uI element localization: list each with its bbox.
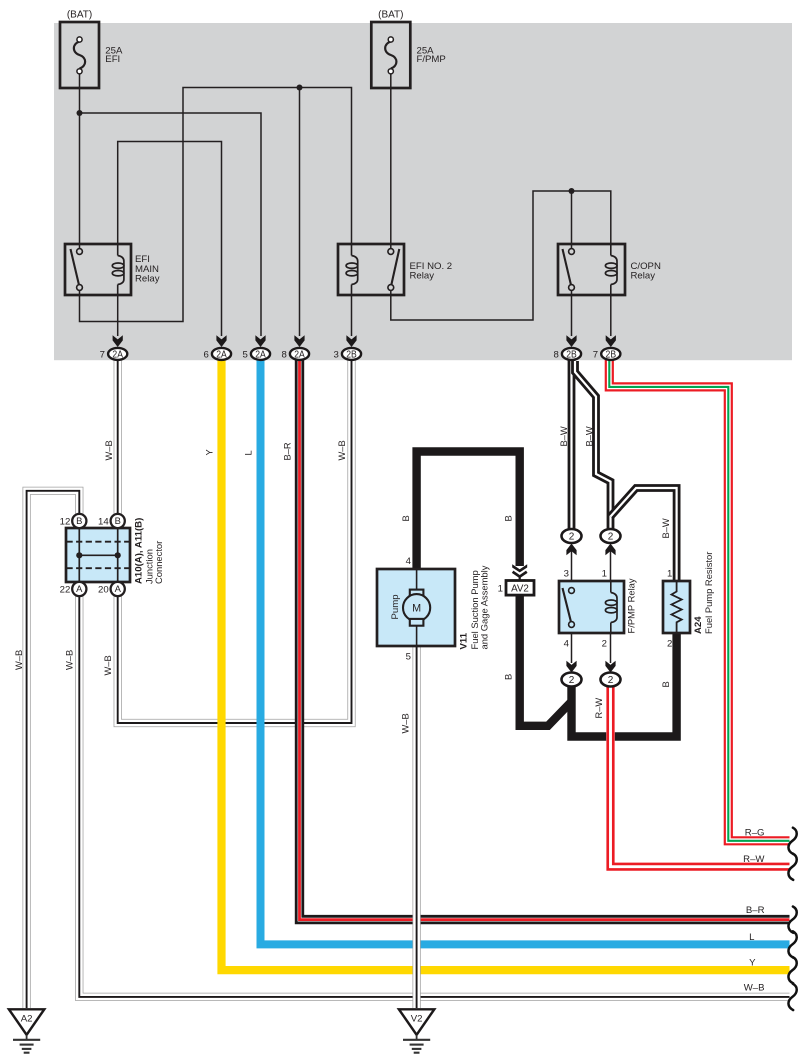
svg-text:5: 5 <box>242 349 247 360</box>
pin 7 2B <box>606 335 616 347</box>
svg-text:W–B: W–B <box>744 983 765 994</box>
wire: EFI MAIN coil to pin 6 2A <box>118 142 222 337</box>
wire: EFI NO.2 coil bottom to pin 3 2B <box>351 295 353 336</box>
svg-text:Connector: Connector <box>153 541 164 584</box>
wire W-B: junction B12 up, left, down to ground A2 <box>27 491 80 1008</box>
svg-text:B–W: B–W <box>559 426 569 446</box>
svg-text:Relay: Relay <box>410 271 435 282</box>
svg-text:2A: 2A <box>294 349 305 360</box>
svg-text:AV2: AV2 <box>511 584 529 595</box>
continuation curl Y <box>788 957 796 983</box>
node dot at C/OPN feed <box>569 188 575 194</box>
continuation curl B-R <box>788 907 796 933</box>
svg-text:B–W: B–W <box>661 518 671 538</box>
wire W-B: pin 7 2A down to junction connector B14 <box>114 359 122 515</box>
svg-text:B–R: B–R <box>746 905 765 916</box>
svg-text:7: 7 <box>593 349 598 360</box>
svg-text:W–B: W–B <box>64 650 74 670</box>
resistor A24 Fuel Pump Resistor <box>663 581 690 633</box>
svg-text:A: A <box>115 583 122 594</box>
svg-text:EFI: EFI <box>105 54 120 65</box>
continuation curl R-W <box>788 854 796 880</box>
connector 2 (to relay pin 1) <box>610 551 612 581</box>
wire: branch down to pin 8 2A <box>299 88 301 337</box>
svg-text:A: A <box>76 583 83 594</box>
svg-text:R–G: R–G <box>745 827 765 838</box>
wire: fuse F/PMP to EFI NO.2 contact <box>390 71 392 249</box>
wire: fuse EFI to EFI MAIN relay contact <box>79 71 81 249</box>
svg-text:2: 2 <box>569 675 575 686</box>
svg-text:F/PMP Relay: F/PMP Relay <box>626 578 637 633</box>
relay EFI MAIN <box>65 244 131 295</box>
svg-text:2: 2 <box>667 639 672 650</box>
wire W-B: fuel pump pin 5 down to ground V2 (drawn over crossings) <box>413 646 421 1008</box>
svg-text:3: 3 <box>333 349 338 360</box>
relay EFI NO. 2 <box>338 244 404 295</box>
svg-text:14: 14 <box>98 517 109 528</box>
node dot on B-R feed <box>297 85 303 91</box>
svg-text:A2: A2 <box>21 1013 33 1024</box>
wire W-B: junction A22 down and right along bottom to edge <box>79 595 789 997</box>
svg-text:2: 2 <box>608 532 614 543</box>
svg-text:2A: 2A <box>216 349 227 360</box>
svg-text:Relay: Relay <box>631 271 656 282</box>
connector AV2 <box>512 564 527 572</box>
continuation curl R-G <box>788 828 796 854</box>
pin 8 2A <box>294 335 304 347</box>
F/PMP relay pin 2 <box>610 633 612 663</box>
connector 2 (relay pin 2 out) <box>605 661 615 673</box>
fuse 25A EFI <box>60 22 99 88</box>
svg-text:5: 5 <box>406 652 411 663</box>
wire: node to pin 5 2A <box>80 113 262 336</box>
svg-text:W–B: W–B <box>104 440 114 460</box>
wire Y: pin 6 2A down and right to edge <box>222 359 790 970</box>
wire: EFI NO.2 contact out to C/OPN relay <box>391 191 611 320</box>
wire B (thick): AV2 down, over to F/PMP relay pin 4 node <box>520 595 572 726</box>
svg-text:B: B <box>504 674 514 680</box>
junction pin B14 <box>111 514 125 528</box>
gray engine-compartment panel <box>54 23 792 360</box>
svg-text:22: 22 <box>60 585 71 596</box>
svg-text:R–W: R–W <box>594 698 604 719</box>
wire B-W: pin 8 2B straight down to connector 2 (F/PMP relay pin 3) <box>568 359 576 529</box>
svg-text:2B: 2B <box>566 349 577 360</box>
svg-text:3: 3 <box>564 569 569 580</box>
wire: C/OPN coil bottom to pin 7 2B <box>610 295 612 336</box>
wire L: pin 5 2A down and right to edge <box>261 359 790 944</box>
pin 5 2A <box>255 335 265 347</box>
svg-text:Y: Y <box>749 957 756 968</box>
pin 7 2A <box>113 335 123 347</box>
junction pin B12 <box>72 514 86 528</box>
svg-text:2: 2 <box>608 675 614 686</box>
relay F/PMP <box>559 581 624 633</box>
svg-text:M: M <box>412 603 421 615</box>
junction connector internal bus <box>79 554 117 556</box>
svg-text:2: 2 <box>602 639 607 650</box>
svg-text:2A: 2A <box>255 349 266 360</box>
svg-text:B: B <box>661 681 671 687</box>
svg-text:6: 6 <box>203 349 208 360</box>
node dot below EFI fuse <box>77 110 83 116</box>
svg-text:1: 1 <box>498 583 503 594</box>
wire B-W: branch to fuel pump resistor pin 1 <box>611 488 677 581</box>
fuse 25A F/PMP <box>371 22 410 88</box>
svg-text:Pump: Pump <box>390 594 401 619</box>
F/PMP relay pin 4 <box>571 633 573 663</box>
continuation curl L <box>788 931 796 957</box>
svg-text:(BAT): (BAT) <box>378 10 403 21</box>
svg-text:1: 1 <box>602 569 607 580</box>
wire B-W: pin 8 2B diagonal branch down to connector 2 (F/PMP relay pin 1) <box>575 361 611 529</box>
svg-text:12: 12 <box>60 517 71 528</box>
svg-text:(BAT): (BAT) <box>67 10 92 21</box>
svg-text:Relay: Relay <box>135 274 160 285</box>
wire: C/OPN contact bottom to pin 8 2B <box>571 290 573 336</box>
junction pin A20 <box>111 582 125 596</box>
svg-text:2A: 2A <box>112 349 123 360</box>
svg-text:1: 1 <box>667 569 672 580</box>
svg-text:F/PMP: F/PMP <box>417 54 446 65</box>
wire R-G: pin 7 2B right and down right side to edge <box>609 360 789 841</box>
svg-text:B–W: B–W <box>585 426 595 446</box>
svg-text:B–R: B–R <box>283 442 293 460</box>
svg-text:B: B <box>76 515 82 526</box>
wire B-R: pin 8 2A down and right to edge <box>300 359 790 920</box>
pin 8 2B <box>566 335 576 347</box>
wire: EFI MAIN coil bottom to pin 7 2A <box>117 295 119 336</box>
svg-text:W–B: W–B <box>401 713 411 733</box>
svg-text:7: 7 <box>100 349 105 360</box>
fuel pump assembly V11 box <box>377 569 455 646</box>
svg-text:W–B: W–B <box>14 650 24 670</box>
wire B (thick): relay pin 4 down, right, up to resistor pin 2 <box>572 633 677 737</box>
continuation curl W-B <box>788 984 796 1010</box>
ground A2 <box>9 1009 44 1035</box>
relay C/OPN <box>558 244 625 295</box>
svg-text:Fuel Pump Resistor: Fuel Pump Resistor <box>703 552 714 634</box>
svg-text:B: B <box>401 515 411 521</box>
svg-text:2B: 2B <box>606 349 617 360</box>
svg-text:W–B: W–B <box>337 440 347 460</box>
junction pin A22 <box>72 582 86 596</box>
svg-text:L: L <box>749 932 755 943</box>
svg-text:and Gage Assembly: and Gage Assembly <box>479 565 490 649</box>
wire B (thick): fuel pump pin 4 loop over to AV2 <box>417 452 520 571</box>
svg-text:Y: Y <box>205 449 215 455</box>
pump motor M <box>416 569 418 592</box>
wire: EFI MAIN contact out, up and across to EFI NO.2 coil <box>80 88 352 322</box>
junction connector A10(A), A11(B) <box>66 528 130 582</box>
svg-text:V2: V2 <box>411 1013 423 1024</box>
svg-text:8: 8 <box>281 349 286 360</box>
svg-text:B: B <box>115 515 121 526</box>
svg-text:R–W: R–W <box>743 854 765 865</box>
svg-text:2B: 2B <box>346 349 357 360</box>
connector 2 (to relay pin 3) <box>571 551 573 581</box>
svg-text:2: 2 <box>569 532 575 543</box>
wire R-W: connector 2 (relay pin 2) down and right to edge <box>611 686 790 867</box>
svg-text:L: L <box>244 450 254 455</box>
svg-text:4: 4 <box>406 556 412 567</box>
svg-text:W–B: W–B <box>103 655 113 675</box>
svg-text:B: B <box>504 515 514 521</box>
pin 6 2A <box>216 335 226 347</box>
svg-text:8: 8 <box>553 349 558 360</box>
wire W-B: pin 3 2B down, left, up to junction connector A20 <box>118 359 352 723</box>
connector 2 (relay pin 4 out) <box>566 661 576 673</box>
ground V2 <box>399 1009 434 1035</box>
svg-text:4: 4 <box>564 639 570 650</box>
svg-text:20: 20 <box>98 585 109 596</box>
pin 3 2B <box>346 335 356 347</box>
wire: branch down to C/OPN contact <box>571 191 573 249</box>
